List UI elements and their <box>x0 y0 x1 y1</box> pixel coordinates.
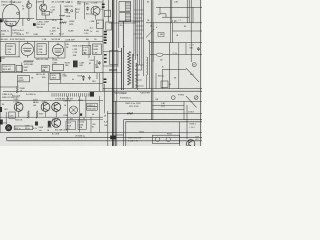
left border dark segment <box>0 57 1 62</box>
wire horizontal y=135 bottom right <box>116 134 124 136</box>
wire vertical pair x=170.4-171.8 top <box>169 0 171 43</box>
box T102 right edge <box>179 122 181 146</box>
resistor vertical x=37 <box>36 111 38 118</box>
wire vertical x=187 bottom <box>186 105 188 139</box>
wire from X401 down <box>28 8 30 18</box>
wire horizontal y=19.3 mid left <box>36 18 63 20</box>
transistor Q402 <box>14 103 23 112</box>
small box x=106 y=22 <box>106 22 112 30</box>
box small x=41.5 y=65.5 <box>42 66 50 72</box>
schematic paper background <box>0 0 202 146</box>
transistor X410 <box>187 140 195 148</box>
capacitor top x=87 <box>87 7 89 8</box>
wire vertical x=45.8 top <box>45 15 47 19</box>
wire horizontal y=117.2 bottom section <box>0 116 103 118</box>
box C41B LW33T <box>17 76 29 82</box>
wire diagonal bottom right <box>186 68 199 82</box>
wire vertical x=85.9 bottom section <box>85 96 87 117</box>
resistor P48B vertical <box>16 86 18 94</box>
box x=96.5 y=20 <box>97 20 104 28</box>
transformer T401 taps <box>135 64 143 66</box>
wire horizontal y=66 mid <box>103 65 119 67</box>
hatch component row y93-97 <box>51 93 53 96</box>
wire vertical x=97 mid stub <box>96 73 98 79</box>
transformer T402 lower box <box>119 13 131 22</box>
wire vertical x=21.8 down from resistor <box>21 63 23 73</box>
coil L402 right of transformer <box>147 57 148 75</box>
wire vertical x=99.5 bottom section <box>99 96 101 133</box>
coil oval on line y=54.7 <box>156 53 163 56</box>
box T102 inner corner <box>126 122 202 146</box>
box C-413 mid <box>82 45 90 55</box>
wire vertical pair x=151.4-152.8 <box>150 0 152 120</box>
transformer T401 right rail <box>137 54 139 90</box>
wire vertical x=116.8 full height <box>116 0 118 146</box>
label B+ marks top of mid column <box>102 4 105 6</box>
box T102 outer corner <box>124 120 202 146</box>
wire X407 down <box>95 15 97 19</box>
wire vertical x=108.5 upper <box>108 0 110 22</box>
diagonal wire to transistor X410 <box>186 96 197 108</box>
resistor R433 horizontal <box>24 60 34 62</box>
wire X402 collector up <box>42 0 44 4</box>
wire vertical x=48.5 mid <box>48 73 50 92</box>
wire vertical x=19.1 tube row <box>18 42 20 57</box>
wire horizontal y=72.7 left full <box>0 72 103 74</box>
black mark left edge y=107 <box>0 107 2 112</box>
wire vertical x=162.3 lower right <box>161 69 163 88</box>
box C45B left mid <box>50 73 60 79</box>
wire into loop <box>10 0 12 4</box>
left border line <box>0 18 1 133</box>
scan noise overlay fine <box>0 0 1 1</box>
wire vertical x=89 tube row <box>88 42 90 59</box>
transistor X402 top <box>40 4 47 11</box>
small box x=16 y=65.5 <box>16 66 22 72</box>
wire horizontal y=132.5 full width <box>0 132 202 134</box>
transistor Q406 lower <box>52 118 61 127</box>
transformer T401 left rails <box>121 48 123 90</box>
wire horizontal y=31 right <box>172 30 202 32</box>
wire power band line 1 <box>103 88 202 90</box>
wire vertical x=17.3 down <box>16 82 18 86</box>
wire vertical dark pair x=112.5-113.7 full height <box>112 0 114 146</box>
box mid x=52 y=64.5 <box>52 65 63 71</box>
transistor X401 top <box>26 3 31 8</box>
small circle node x=18 <box>17 12 19 14</box>
wire vertical x=94.2 row <box>93 56 95 73</box>
box label C44B right <box>93 44 102 54</box>
wire horizontal y=72.7 mid <box>100 72 122 74</box>
junction dot x=60.8 y=19.3 <box>60 19 61 20</box>
circled 17 <box>192 63 196 67</box>
wire horizontal y=7 right top <box>156 6 202 8</box>
wire vertical x=178.8 extend up <box>178 43 180 55</box>
wire vertical x=60.8 <box>60 5 62 37</box>
wire top left vertical x=36.5 <box>36 0 38 19</box>
wire vertical x=91 bottom <box>90 117 92 132</box>
wire horizontal y=83.5 mid left <box>49 83 104 85</box>
wire transistor Q402 emitter down <box>18 112 20 117</box>
voltage labels black marks x=104 <box>104 31 107 33</box>
small node circle x=28.6 <box>28 18 30 20</box>
box mid column y=50 <box>110 51 118 65</box>
wire horizontal y=109.7 right stub <box>152 109 184 111</box>
wire vertical x=104.5 band <box>104 84 106 113</box>
transformer T402 lower winding hatch <box>125 13 127 22</box>
wire horizontal y=105.4 right stub <box>152 104 184 106</box>
wire vertical x=107.8 bottom <box>107 111 109 146</box>
wire bottom double bus with rounded end <box>6 137 202 141</box>
wire transistor Q403 emitter down <box>45 112 47 118</box>
wire horizontal y=119.5 bottom mid <box>66 119 103 121</box>
tube V401 <box>21 43 33 55</box>
box horizontal output stage outline <box>119 21 144 48</box>
black blob left edge y=120 <box>0 120 3 125</box>
transformer T401 core lines <box>131 54 133 88</box>
small marks right x=97 <box>96 60 98 68</box>
box right of C15 <box>14 126 32 130</box>
wire horizontal y=17.2 right <box>162 16 189 18</box>
wire vertical x=34.7 tube row <box>34 42 36 59</box>
wire vertical x=115.7 bottom <box>115 101 117 146</box>
black blob x=90 y=92 <box>90 92 94 97</box>
bus rung ticks lower <box>134 21 140 23</box>
wire horizontal y=36.2 across left <box>0 35 103 37</box>
wire vertical x=67.3 bottom section <box>66 96 68 133</box>
transistor Q404 <box>52 103 61 112</box>
wire vertical x=6.2 bottom left <box>5 112 7 125</box>
wire horizontal y=70.8 mid <box>109 70 117 72</box>
resistor R444 <box>127 113 133 115</box>
boxed label C409 right1 <box>87 103 97 106</box>
transformer T402 upper box <box>119 2 131 12</box>
box mid bottom 1 <box>66 121 76 130</box>
wire horizontal y=54.7 right full <box>150 54 202 56</box>
scan noise overlay coarse <box>0 0 1 1</box>
wire vertical right edge x=200.5 <box>200 0 202 146</box>
capacitor dark blob x=48 y=120 <box>48 121 51 127</box>
wire horizontal y=87 left stub <box>0 86 17 88</box>
wire vertical x=99.5 mid <box>99 73 101 92</box>
transformer T401 secondary winding <box>135 63 137 88</box>
wire horizontal y=18.7 left <box>0 18 34 20</box>
coil loop large top left <box>3 4 20 26</box>
tube V402 <box>53 45 64 56</box>
wire vertical x=178.8 <box>178 55 180 89</box>
black marks mid column y=78 <box>104 79 107 81</box>
box x=104.5 y=10 <box>105 10 111 17</box>
small box right mid x=158 <box>158 33 164 37</box>
wire horizontal y=113.4 bottom <box>107 112 202 114</box>
capacitor small x=67 y=10 <box>66 8 68 9</box>
box C1413 bottom left <box>2 64 15 71</box>
wire vertical x=65 tube row <box>64 42 66 59</box>
wire diagonal joint left of right block <box>146 29 154 38</box>
wire X401 collector up <box>28 0 30 3</box>
wire horizontal y=91.3 left section divider <box>3 90 103 92</box>
dark capacitor can C15 <box>5 125 11 131</box>
box label FR48B left <box>6 44 15 55</box>
wire horizontal y=58 tube row <box>35 57 65 59</box>
resistor vertical x=28.4 <box>27 111 29 118</box>
wire vertical x=60.8 mid left <box>60 73 62 84</box>
wire vertical x=169.3 <box>168 43 170 89</box>
coil L-4B horizontal <box>59 15 65 16</box>
transistor X407 <box>91 6 100 15</box>
box L-40B below X402 <box>42 11 50 15</box>
wire vertical x=193 corner down <box>192 7 194 22</box>
voltage labels black marks x=104 mid <box>104 54 107 56</box>
wire power band line 2 <box>103 90 202 92</box>
capacitor right edge <box>198 47 200 48</box>
capacitor C407 dark blob <box>35 122 38 126</box>
wire vertical x=146.5 stub <box>146 75 148 89</box>
bus vertical x=139-144 top <box>139 0 141 65</box>
box label C42B right of tube <box>37 44 46 55</box>
capacitor mid x=83 <box>82 75 84 76</box>
wire vertical x=153 mid <box>152 23 154 62</box>
wire vertical x=79.7 bottom section <box>79 96 81 133</box>
fuse circle 2 <box>166 137 170 141</box>
wire vertical x=184 <box>183 101 185 119</box>
junction circle x=71.8 top <box>71 10 73 12</box>
component box y=22 left <box>6 21 16 25</box>
ground symbol x=89.5 <box>89 75 91 77</box>
small dark blob x=80 y=113 <box>80 113 83 115</box>
connector circle B <box>194 96 198 100</box>
black component bottom middle <box>110 136 116 140</box>
wire vertical trio x=187-191 top <box>186 0 188 23</box>
wire horizontal y=101.4 bottom right <box>113 100 203 102</box>
wire vertical x=186 right gap <box>185 43 187 55</box>
wire vertical x=156 <box>155 73 157 89</box>
wire vertical x=103 <box>102 0 104 91</box>
resistor horizontal x=60 y=22.5 <box>60 22 67 24</box>
circle with cross Q405 <box>70 106 78 114</box>
boxed label right2 <box>87 107 97 110</box>
wire vertical x=22.9 <box>22 18 24 26</box>
transistor Q403 <box>41 103 50 112</box>
wire horizontal y=42.6 right full <box>150 42 202 44</box>
wire horizontal y=51.5 mid <box>103 51 122 53</box>
wire vertical x=48.6 tube row <box>48 42 50 59</box>
wire transistor Q404 emitter down <box>55 112 57 117</box>
wire horizontal y=69.3 mid <box>109 68 117 70</box>
transformer T402 upper winding hatch <box>125 2 127 12</box>
voltage labels black marks x=104 lower <box>104 39 107 41</box>
transformer T401 primary winding zigzag <box>128 52 131 86</box>
connector circle A <box>171 96 175 100</box>
box F101 <box>153 135 180 143</box>
wire top left vertical x=75.5 <box>75 8 77 19</box>
wire top left vertical x=84.5 <box>84 2 86 19</box>
wire horizontal y=100.5 left <box>0 100 103 102</box>
black terminal block left edge y=20 <box>0 19 3 22</box>
wire horizontal y=22.8 right full <box>146 22 202 24</box>
wire horizontal y=23 middle <box>109 22 136 24</box>
box C405 LB <box>9 112 15 118</box>
junction dot x=83 <box>83 79 84 80</box>
wire horizontal y=2 top middle <box>77 1 103 3</box>
fuse circle 1 <box>155 137 159 141</box>
wire horizontal y=41.5 across left <box>0 41 103 43</box>
wire horizontal y=56.9 left stub <box>0 56 20 58</box>
wire horizontal y=69.4 right partial <box>162 68 186 70</box>
bus vertical x=134-137 top <box>133 0 135 56</box>
box mid bottom 2 <box>78 120 86 130</box>
small box right y=81 <box>161 81 168 88</box>
black blob x=33 y=23 <box>33 23 36 26</box>
capacitor C43B dark blob <box>73 61 78 68</box>
wire tick x=6 on y=18.7 <box>5 19 7 22</box>
bus rung ticks top <box>134 9 144 11</box>
wire loop bottom lead down <box>10 26 12 36</box>
wire vertical x=149.5 <box>149 40 151 89</box>
wire vertical x=172.4 down <box>171 23 173 43</box>
wire step down right top <box>160 7 166 17</box>
